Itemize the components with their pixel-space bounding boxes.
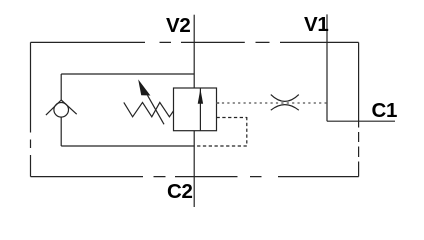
svg-text:V1: V1 (304, 13, 328, 36)
svg-text:C2: C2 (167, 180, 193, 203)
svg-text:C1: C1 (372, 99, 398, 122)
svg-text:V2: V2 (166, 14, 190, 37)
